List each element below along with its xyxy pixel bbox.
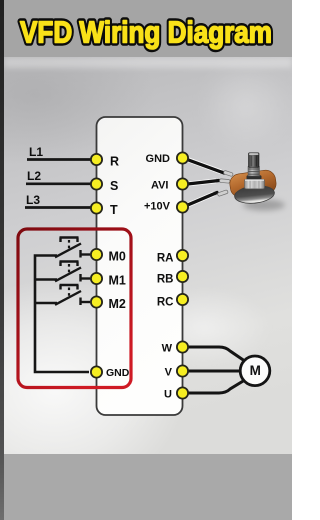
bus tap to switch S2 xyxy=(35,278,57,281)
terminal AVI xyxy=(177,178,188,189)
svg-text:V: V xyxy=(165,367,173,379)
svg-text:VFD Wiring Diagram: VFD Wiring Diagram xyxy=(20,15,272,50)
VFD body U1 xyxy=(97,117,183,415)
wire GND to pot xyxy=(184,158,221,172)
wire W to motor xyxy=(183,347,244,361)
svg-text:L1: L1 xyxy=(29,145,43,159)
switch S2 (M1) xyxy=(55,262,90,282)
terminal M2 xyxy=(91,296,102,307)
motor M xyxy=(240,356,270,386)
terminal T xyxy=(91,202,102,213)
svg-text:M: M xyxy=(250,363,261,378)
terminal RC xyxy=(177,294,188,305)
wire V to motor xyxy=(183,370,241,373)
svg-text:M1: M1 xyxy=(109,274,126,288)
pot orange wafer xyxy=(229,169,278,199)
switch S1 (M0) xyxy=(55,238,90,258)
pot shaft xyxy=(249,153,260,168)
wire L2 xyxy=(26,182,96,185)
terminal V xyxy=(177,365,188,376)
terminal M1 xyxy=(91,273,102,284)
pot hex nut xyxy=(245,179,265,189)
pot threaded bushing xyxy=(248,167,260,177)
pot dark washer xyxy=(247,175,262,180)
terminal M0 xyxy=(91,249,102,260)
wire L3 xyxy=(25,206,96,209)
terminal U xyxy=(177,387,188,398)
wire U to motor xyxy=(183,381,244,394)
terminal R xyxy=(91,154,102,165)
wire AVI to pot xyxy=(184,181,216,185)
terminal GND left xyxy=(91,366,102,377)
svg-text:M0: M0 xyxy=(109,250,126,264)
svg-text:L3: L3 xyxy=(26,193,40,207)
lead crimp tips xyxy=(217,170,233,196)
terminal GND right xyxy=(177,152,188,163)
svg-text:GND: GND xyxy=(106,367,130,379)
potentiometer RP1 xyxy=(229,153,285,211)
terminal RA xyxy=(177,250,188,261)
svg-text:W: W xyxy=(162,343,173,355)
svg-text:AVI: AVI xyxy=(151,180,169,192)
red highlight box around M0-M2 switches xyxy=(18,229,131,388)
svg-text:L2: L2 xyxy=(27,169,41,183)
svg-text:M2: M2 xyxy=(109,297,126,311)
wire L1 xyxy=(27,158,96,161)
switch bus wire xyxy=(35,256,89,373)
switch S3 (M2) xyxy=(55,285,90,305)
svg-text:RB: RB xyxy=(157,274,174,286)
left dark edge strip xyxy=(0,0,4,520)
pot shadow xyxy=(243,200,285,211)
svg-text:RC: RC xyxy=(157,297,174,309)
terminal S xyxy=(91,178,102,189)
terminal +10V xyxy=(177,201,188,212)
svg-text:U: U xyxy=(164,389,172,401)
terminal W xyxy=(177,341,188,352)
terminal RB xyxy=(177,271,188,282)
pot metal bottom cover xyxy=(234,184,276,205)
wire +10V to pot xyxy=(184,194,214,207)
svg-text:S: S xyxy=(110,179,118,193)
svg-text:GND: GND xyxy=(146,153,171,165)
svg-text:T: T xyxy=(110,203,118,217)
svg-text:RA: RA xyxy=(157,253,174,265)
bus tap to switch S3 xyxy=(35,302,57,305)
svg-text:R: R xyxy=(110,155,119,169)
svg-text:+10V: +10V xyxy=(144,201,171,213)
